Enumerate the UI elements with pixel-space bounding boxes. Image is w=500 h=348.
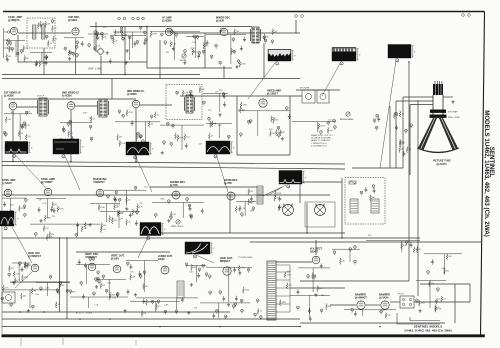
value label (35, 294, 40, 296)
capacitor C204 (75, 233, 78, 237)
ground g45-0 (227, 303, 230, 306)
capacitor C114 (115, 191, 118, 195)
resistor R112 (132, 209, 138, 215)
wire riser x342 (341, 178, 343, 238)
capacitor C74 (189, 91, 192, 95)
svg-text:220: 220 (45, 228, 48, 230)
tube V16 audio output (158, 255, 173, 274)
capacitor C12 (76, 54, 79, 58)
capacitor C9 (45, 55, 48, 60)
svg-text:NOISE: NOISE (180, 60, 187, 62)
CRT face (417, 148, 459, 153)
svg-text:100: 100 (446, 271, 449, 273)
wire (cluster drop) (144, 261, 146, 293)
wire (cluster drop) (132, 32, 134, 48)
resistor R111 (101, 222, 106, 228)
tube V1 (A) 6BQ7A cascode amp (8, 16, 22, 35)
wire IF drop 2 (70, 110, 72, 162)
capacitor C30 (139, 26, 142, 30)
value label (381, 309, 386, 311)
capacitor C222 (241, 309, 244, 313)
resistor R98 (429, 280, 434, 286)
resistor R51 (400, 140, 405, 146)
resistor R44 (240, 102, 247, 108)
IF transformer T2 1st IF transformer (37, 96, 49, 117)
capacitor C84 (278, 134, 281, 138)
svg-text:.05: .05 (55, 39, 58, 41)
svg-text:.01: .01 (177, 135, 180, 137)
resistor R99 (441, 296, 446, 302)
wire V7 plate link (140, 104, 172, 106)
svg-text:VOLTAGE IS SHOWN: VOLTAGE IS SHOWN (311, 137, 331, 140)
resistor R47 (318, 123, 325, 129)
ground g73-0 (161, 151, 164, 154)
wire leader from photo P6 (135, 155, 152, 192)
capacitor C11 (45, 60, 48, 65)
wire CRT drive riser 1 (395, 101, 397, 168)
capacitor C228 (309, 316, 312, 321)
resistor R85 (55, 302, 60, 308)
fold mark 2 (62, 338, 64, 345)
svg-text:1M: 1M (409, 149, 412, 151)
resistor R86 (31, 288, 36, 294)
wire (cluster rail) (30, 51, 52, 53)
wire tuner bottom rail (18, 61, 147, 63)
resistor R9 (47, 40, 52, 46)
svg-text:MODELS 1U462, 1U463, 462, 463: MODELS 1U462, 1U463, 462, 463 (Ch. 2WA) (483, 110, 490, 237)
tube V10 (K) 6SN7 sync amp (41, 178, 55, 196)
waveform photo P3 video at CRT (388, 45, 416, 63)
waveform photo P11 sync sep out (0, 211, 19, 230)
resistor R100 (435, 306, 442, 312)
capacitor C221 (254, 313, 257, 317)
capacitor C64 (71, 136, 74, 141)
resistor R53 (406, 146, 411, 152)
capacitor C47 (220, 28, 223, 33)
wire (cluster rail) (160, 124, 204, 126)
value label (94, 304, 99, 306)
capacitor C81 (247, 120, 250, 124)
svg-text:Ⓓ 6U8: Ⓓ 6U8 (216, 19, 224, 23)
resistor R118 (81, 226, 87, 232)
resistor R94 (312, 273, 317, 279)
value label (119, 219, 123, 221)
value label (103, 27, 107, 29)
flyback transformer T7 (267, 261, 276, 320)
svg-text:100: 100 (102, 229, 105, 231)
svg-text:1ST I.F.: 1ST I.F. (37, 96, 45, 98)
wire drop to UHF bus b (75, 56, 77, 75)
wire (cluster drop) (317, 122, 319, 132)
capacitor C142 (102, 275, 105, 279)
capacitor C108 (50, 207, 53, 212)
svg-text:100: 100 (186, 137, 189, 139)
svg-text:Ⓑ 6AF4: Ⓑ 6AF4 (68, 18, 78, 22)
resistor R122 (59, 283, 64, 289)
wire riser x230 (229, 195, 231, 233)
resistor R97 (418, 300, 425, 306)
wire sound line bus (2, 78, 300, 80)
svg-text:100: 100 (8, 56, 11, 58)
capacitor C34 (196, 35, 199, 39)
svg-text:.01: .01 (211, 136, 214, 138)
wire P10 drop (299, 184, 301, 203)
ground CRT ground (451, 100, 454, 103)
capacitor C110 (107, 195, 110, 199)
svg-text:470K: 470K (184, 93, 189, 95)
capacitor C14 (81, 41, 84, 46)
wire (cluster rail) (150, 31, 200, 33)
svg-text:.05: .05 (437, 307, 440, 309)
resistor R20 (239, 61, 246, 67)
wire plate line V3-V4 (173, 32, 220, 34)
wire (cluster drop) (19, 114, 21, 140)
resistor R4 (6, 54, 11, 60)
resistor R57 (44, 215, 51, 221)
wire (cluster rail) (203, 92, 228, 94)
wire leader from photo P4 (14, 154, 46, 189)
wire (cluster drop) (41, 52, 43, 62)
capacitor C194 (167, 122, 170, 126)
ground g52-0 (123, 309, 126, 312)
tube V14 vert osc (85, 253, 99, 271)
capacitor C100 (376, 114, 379, 118)
svg-text:Ⓜ ½6SN7: Ⓜ ½6SN7 (41, 180, 53, 184)
capacitor C170 (247, 268, 250, 272)
node J6 (306, 232, 308, 234)
wire drop to UHF bus a (43, 48, 45, 75)
svg-text:220: 220 (11, 268, 14, 270)
wire (cluster drop) (70, 123, 72, 140)
capacitor C133 (21, 267, 24, 272)
ground g51-0 (27, 309, 30, 312)
wire (cluster drop) (361, 310, 363, 316)
capacitor C72 (118, 110, 121, 114)
capacitor C103 (25, 199, 28, 203)
resistor R16 (113, 38, 118, 44)
resistor R72 (248, 199, 255, 205)
svg-text:220: 220 (282, 132, 285, 134)
wire leader from photo P11 (12, 227, 32, 263)
svg-text:1M: 1M (26, 58, 29, 60)
capacitor C181 (351, 308, 354, 312)
value label (192, 51, 197, 53)
ground g22-0 (75, 141, 78, 144)
svg-text:.01: .01 (158, 306, 161, 308)
resistor R129 (340, 258, 345, 264)
capacitor C145 (139, 275, 142, 279)
svg-text:470K: 470K (179, 138, 184, 140)
border frame bottom rule (2, 334, 485, 337)
capacitor C175 (297, 289, 300, 294)
wire UHF line bus (2, 74, 200, 76)
svg-text:470K: 470K (282, 302, 287, 304)
capacitor C46 (237, 60, 240, 64)
capacitor C67 (137, 132, 140, 136)
capacitor C184 (437, 288, 440, 292)
focus coil box (2, 292, 15, 303)
capacitor C23 (94, 31, 97, 35)
wire grid line V1-V2 (18, 32, 71, 34)
resistor R12 (68, 50, 75, 56)
wire (cluster drop) (219, 93, 221, 112)
wire socket feed (390, 301, 400, 303)
resistor R103 (203, 43, 208, 49)
value label (191, 48, 196, 50)
value label (219, 90, 223, 92)
wire CRT 2nd anode wire (443, 96, 453, 98)
capacitor C146 (138, 271, 141, 276)
capacitor C18 (64, 47, 67, 51)
resistor R2 (9, 46, 14, 52)
svg-text:220: 220 (387, 315, 390, 317)
value label (112, 298, 117, 300)
resistor R79 (24, 262, 31, 268)
svg-text:6.8K: 6.8K (83, 112, 88, 114)
svg-text:1.5K: 1.5K (42, 203, 47, 205)
resistor R76 (370, 195, 375, 201)
capacitor C24 (96, 35, 99, 40)
capacitor C192 (193, 35, 196, 39)
wire leader from photo P5 (64, 154, 80, 190)
resistor R108 (209, 121, 216, 127)
value label (45, 288, 50, 290)
svg-text:470K: 470K (277, 193, 282, 195)
capacitor C210 (57, 290, 60, 294)
svg-text:.05: .05 (401, 113, 404, 115)
capacitor C215 (116, 292, 119, 297)
resistor R58 (57, 206, 64, 212)
wire AGC line bottom (2, 311, 230, 313)
resistor R78 (22, 275, 29, 281)
capacitor C29 (122, 37, 125, 41)
border frame right rule (481, 12, 485, 337)
capacitor C226 (224, 315, 227, 319)
shield box power rectifier box (dashed) (345, 178, 385, 225)
ground g26-0 (281, 137, 284, 140)
resistor R120 (8, 265, 13, 271)
wire bottom right rail (414, 301, 470, 303)
wire (cluster rail) (136, 297, 198, 299)
resistor R96 (385, 312, 390, 318)
value label (52, 216, 56, 218)
node J11 (135, 161, 137, 163)
svg-text:1.5K: 1.5K (218, 125, 223, 127)
wire sound IF link (150, 186, 257, 188)
capacitor C62 (90, 137, 93, 141)
capacitor C128 (278, 205, 281, 210)
resistor R119 (46, 234, 53, 240)
capacitor C125 (189, 206, 192, 211)
capacitor C180 (354, 311, 357, 316)
wire vert line bus (2, 318, 300, 320)
capacitor C95 (405, 129, 408, 133)
capacitor C136 (84, 263, 87, 268)
capacitor C234 (354, 246, 357, 250)
capacitor C229 (320, 309, 323, 313)
wire drop x160 (159, 40, 161, 79)
capacitor C209 (49, 275, 52, 279)
wire (cluster rail) (4, 113, 32, 115)
node J12 (19, 311, 21, 313)
svg-text:220: 220 (194, 52, 197, 54)
IF transformer T4 4.5MC sound trap (185, 95, 195, 113)
capacitor C93 (395, 112, 398, 116)
capacitor C176 (320, 263, 323, 268)
resistor R95 (317, 285, 323, 291)
svg-text:220: 220 (342, 261, 345, 263)
capacitor C48 (219, 61, 222, 65)
capacitor C35 (197, 54, 200, 59)
resistor R89 (238, 265, 245, 271)
wire (cluster drop) (218, 303, 220, 318)
capacitor C16 (75, 45, 78, 49)
wire tuner drop (17, 35, 19, 62)
resistor R40 (275, 129, 282, 135)
resistor R90 (242, 287, 249, 293)
svg-text:.01: .01 (115, 40, 118, 42)
tube V12 (L) 6T8 sound det (170, 181, 185, 199)
value label (83, 112, 88, 114)
part circles near antenna terminal (295, 14, 471, 18)
capacitor C157 (40, 287, 43, 291)
ground g31-0 (5, 219, 8, 222)
resistor R121 (2, 285, 9, 291)
node J14 (79, 318, 81, 320)
svg-text:1.5K: 1.5K (328, 120, 333, 122)
wire (cluster rail) (332, 248, 360, 250)
tube V15 (N) vert output (111, 255, 125, 273)
resistor R80 (13, 271, 20, 277)
shield box tuner coil box (dashed) (27, 18, 55, 48)
capacitor C118 (201, 208, 204, 213)
wire V6 plate link (75, 105, 98, 107)
svg-text:Ⓝ 6T8: Ⓝ 6T8 (170, 183, 178, 187)
wire CRT drive riser 2 (402, 97, 404, 168)
capacitor C231 (308, 308, 311, 313)
capacitor C54 (3, 131, 6, 135)
capacitor C82 (277, 126, 280, 130)
wire ant link (259, 32, 300, 34)
svg-text:.01: .01 (87, 224, 90, 226)
wire (cluster drop) (181, 125, 183, 150)
value label (269, 129, 273, 131)
capacitor C10 (45, 56, 48, 60)
value label (215, 91, 220, 93)
svg-text:6.8K: 6.8K (287, 271, 292, 273)
svg-text:220: 220 (124, 34, 127, 36)
capacitor C205 (76, 223, 79, 228)
wire (cluster drop) (118, 212, 120, 228)
svg-text:PICTURE: PICTURE (300, 88, 310, 90)
wire corner (pilot circuit) (397, 313, 440, 324)
svg-text:1M: 1M (47, 24, 50, 26)
wire (cluster rail) (126, 260, 158, 262)
wire (cluster drop) (88, 297, 90, 308)
capacitor C22 (94, 47, 97, 51)
capacitor C119 (190, 215, 193, 219)
capacitor C63 (69, 120, 72, 124)
capacitor C197 (172, 124, 175, 128)
svg-text:A.G.C. LINE: A.G.C. LINE (76, 312, 93, 315)
svg-text:470K: 470K (320, 126, 325, 128)
wire (cluster drop) (312, 268, 314, 292)
note text block (311, 135, 334, 147)
wire (cluster drop) (29, 290, 31, 308)
ground g15-0 (106, 51, 109, 54)
node J3 (124, 74, 126, 76)
wire IF B+ bus (2, 162, 345, 165)
resistor R39 (273, 117, 278, 123)
waveform photo P6 3rd IF grid (126, 142, 154, 159)
capacitor C42 (215, 44, 218, 48)
resistor R101 (435, 305, 440, 311)
capacitor C1 (6, 42, 9, 46)
resistor R126 (141, 310, 146, 316)
side title models (483, 110, 490, 237)
wire IF drop 3 (135, 108, 137, 162)
svg-text:.05: .05 (151, 123, 154, 125)
ion trap magnet (430, 110, 446, 113)
resistor R43 (270, 130, 275, 136)
capacitor C178 (313, 275, 316, 279)
wire V5 plate link (17, 106, 38, 108)
wire video box bottom (237, 154, 290, 156)
svg-text:.05: .05 (111, 218, 114, 220)
value label (194, 308, 198, 310)
capacitor C49 (263, 36, 266, 40)
tube V12b (N) 6T8 ratio det (224, 179, 238, 200)
resistor R65 (109, 216, 114, 222)
svg-text:.01: .01 (50, 43, 53, 45)
wire CRT G2 wire (410, 104, 433, 106)
capacitor C127 (278, 196, 281, 201)
capacitor C122 (186, 198, 189, 202)
wire (cluster rail) (344, 309, 396, 311)
wire CRT grid wire (396, 100, 433, 102)
resistor R63 (111, 218, 118, 224)
value label (192, 42, 197, 44)
resistor R25 (25, 134, 30, 140)
svg-text:1M: 1M (145, 286, 148, 288)
ground g17-0 (235, 65, 238, 68)
svg-text:.01: .01 (443, 299, 446, 301)
coil L1 (tuner) (33, 25, 36, 39)
capacitor C238 (427, 271, 430, 275)
capacitor C17 (76, 41, 79, 45)
svg-text:1U462, 1U463, 462, 463 (Ch. 2W: 1U462, 1U463, 462, 463 (Ch. 2WA) (404, 328, 452, 332)
resistor R66 (137, 204, 144, 210)
svg-text:1M: 1M (102, 285, 105, 287)
svg-text:470K: 470K (240, 268, 245, 270)
tube V6 (F) 6CB6 2nd video IF (62, 92, 80, 110)
svg-text:100: 100 (98, 34, 101, 36)
capacitor C3 (16, 52, 19, 56)
tube V18 1B3GT HV rectifier (310, 248, 323, 264)
value label (218, 125, 223, 127)
capacitor C217 (175, 310, 178, 314)
resistor R28 (5, 117, 11, 123)
svg-text:.05: .05 (58, 304, 61, 306)
capacitor C111 (114, 197, 117, 202)
fold mark 3 (135, 340, 137, 345)
resistor R128 (326, 303, 332, 309)
wire left riser x59 (59, 238, 61, 312)
svg-text:Ⓗ 12BY7: Ⓗ 12BY7 (267, 92, 278, 96)
capacitor C90 (320, 131, 323, 135)
resistor R116 (49, 232, 54, 238)
resistor R55 (7, 212, 12, 218)
